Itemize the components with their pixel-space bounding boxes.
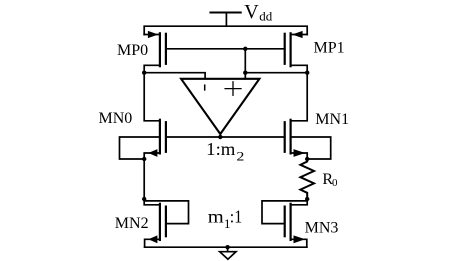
node ground junction: [225, 245, 229, 249]
Vdd supply symbol: [211, 13, 241, 27]
svg-text:m: m: [208, 207, 224, 227]
label m1:1: [208, 207, 242, 232]
svg-text:MN0: MN0: [99, 110, 133, 127]
op-amp plus input mark: [225, 82, 241, 96]
node MN1 source junction: [305, 157, 309, 161]
svg-text:MN2: MN2: [115, 215, 149, 232]
svg-text:dd: dd: [259, 9, 273, 24]
label Vdd: [244, 1, 272, 24]
wire MN0 source down to MN2 drain: [143, 159, 145, 199]
node R0 bottom junction: [305, 197, 309, 201]
transistor MN2: [144, 199, 188, 247]
svg-text:MN1: MN1: [315, 111, 349, 128]
transistor MP1: [285, 31, 308, 73]
node MN2 drain junction: [142, 197, 146, 201]
svg-text:MP1: MP1: [314, 40, 345, 57]
wire ground rail: [145, 246, 307, 248]
node + input junction: [243, 71, 247, 75]
op-amp U1: [181, 79, 259, 137]
node MN0 source junction: [142, 157, 146, 161]
node MP0 drain junction: [142, 71, 146, 75]
wire gate line to op-amp + input: [244, 49, 246, 79]
wire op-amp output to MN0/MN1 gates: [166, 136, 285, 138]
svg-text:1:m: 1:m: [206, 139, 235, 159]
wire MP1 drain down to MN1 drain: [291, 73, 308, 121]
wire MP1 drain to + node: [245, 72, 307, 74]
transistor MN0: [120, 120, 166, 159]
svg-text:2: 2: [236, 148, 244, 163]
node MP1 drain junction: [305, 71, 309, 75]
label 1:m2: [206, 139, 244, 163]
op-amp minus input mark: [204, 85, 206, 90]
transistor MN1: [285, 120, 331, 159]
resistor R0: [300, 159, 314, 199]
node op-amp output junction: [218, 135, 222, 139]
wire MP0 drain to - input: [144, 73, 205, 79]
svg-text:MP0: MP0: [117, 42, 148, 59]
svg-text:MN3: MN3: [305, 220, 339, 237]
wire gate line MP0-MP1: [166, 48, 285, 50]
svg-text:0: 0: [332, 177, 338, 189]
svg-text::1: :1: [230, 207, 242, 227]
label R0: [322, 171, 338, 189]
wire MP0 drain down to MN0 drain: [144, 73, 160, 121]
ground: [220, 247, 236, 259]
wire Vdd top rail: [144, 26, 307, 34]
svg-text:V: V: [244, 1, 259, 23]
node gate-line junction: [243, 47, 247, 51]
transistor MN3: [262, 199, 307, 247]
transistor MP0: [144, 31, 166, 73]
